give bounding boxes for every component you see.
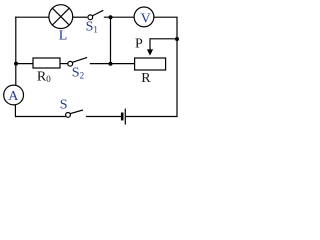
svg-text:P: P <box>135 37 143 52</box>
svg-text:V: V <box>141 12 151 27</box>
svg-text:R: R <box>141 71 151 86</box>
svg-text:A: A <box>8 89 19 104</box>
svg-text:S: S <box>60 97 68 112</box>
svg-text:L: L <box>59 29 68 44</box>
